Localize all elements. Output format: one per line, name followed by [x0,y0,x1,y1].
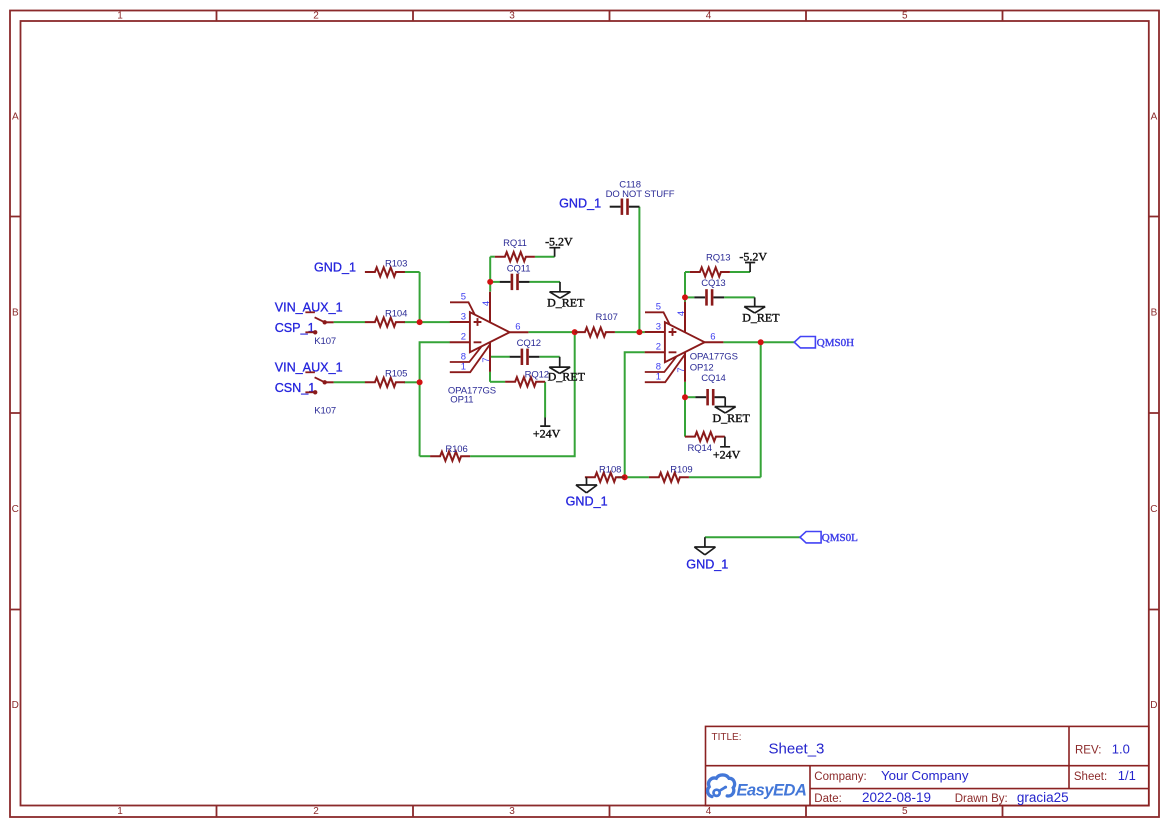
op-amp OP12 OPA177GS [645,301,738,382]
wire CQ13 left [685,296,694,298]
resistor RQ14 [685,432,725,454]
switch K107 lower [305,372,336,416]
wire RQ12 right down to +24V [544,382,546,418]
svg-text:R109: R109 [670,464,692,475]
svg-text:D_RET: D_RET [713,411,751,425]
wire R109 to feedback vertical [689,476,761,478]
svg-text:5: 5 [902,806,908,817]
frame column ticks top [217,11,1003,22]
svg-text:4: 4 [706,10,712,21]
svg-text:A: A [12,112,19,123]
junction OP12 pin7 CQ14 [682,394,688,400]
svg-text:QMS0H: QMS0H [817,337,854,349]
wire R107 to OP12 pin3 [615,331,645,333]
svg-text:RQ12: RQ12 [525,369,549,380]
junction R105 vertical [417,379,423,385]
svg-text:GND_1: GND_1 [559,196,601,210]
wire R106 right to feedback vertical [470,332,575,456]
svg-text:R107: R107 [595,312,617,323]
wire QMS0L to GND [705,536,800,538]
svg-text:+24V: +24V [713,447,741,461]
ground GND_1 at R108 [566,477,608,508]
svg-text:C: C [12,504,19,515]
svg-text:B: B [1151,308,1158,319]
power +24V at RQ12 [533,418,561,441]
svg-text:RQ13: RQ13 [706,253,730,264]
net port QMS0L [800,532,858,544]
svg-text:DO NOT STUFF: DO NOT STUFF [606,189,675,200]
power +24V at RQ14 [713,437,741,462]
svg-text:A: A [1151,112,1158,123]
ruler column labels bottom [117,806,908,817]
svg-text:Drawn By:: Drawn By: [955,793,1008,805]
wire output feedback vertical [760,342,762,477]
ground D_RET at CQ13 [742,297,780,324]
svg-text:Date:: Date: [814,793,842,805]
svg-text:3: 3 [509,10,515,21]
ground GND_1 at QMS0L [686,537,728,571]
svg-text:gracia25: gracia25 [1017,790,1069,805]
wire OP12 pin6 to QMS0H [723,341,794,343]
wire C118 vertical down [638,207,640,332]
wire K107a arm to R104 [334,321,365,323]
svg-text:CQ12: CQ12 [517,338,541,349]
svg-text:1: 1 [117,10,123,21]
ruler row labels left [12,112,19,712]
title block outline [706,726,1149,805]
svg-text:CQ14: CQ14 [701,373,725,384]
wire RQ14 left stub [684,436,686,438]
svg-text:R104: R104 [385,308,407,319]
svg-text:D_RET: D_RET [742,311,780,325]
capacitor C118 [606,179,675,215]
capacitor CQ13 [694,278,725,306]
svg-text:Company:: Company: [814,771,866,783]
wire OP12 pin7 lower [684,382,686,437]
capacitor CQ14 [695,373,725,405]
power -5.2V at RQ13 [739,249,767,272]
capacitor CQ11 [500,263,531,290]
svg-text:D_RET: D_RET [548,370,586,384]
svg-text:K107: K107 [314,405,336,416]
svg-text:GND_1: GND_1 [686,557,728,571]
svg-text:OPA177GS: OPA177GS [690,352,738,363]
resistor RQ11 [495,238,535,261]
wire R105 to vertical [404,381,420,383]
svg-text:REV:: REV: [1075,744,1101,756]
wire OP11 pin4 to RQ11 CQ11 [489,257,491,292]
junction OP11 pin4 CQ11 [487,279,493,285]
wire K107b arm to R105 [334,381,365,383]
wire R108 to junction [618,476,625,478]
svg-text:GND_1: GND_1 [314,261,356,275]
svg-text:Sheet_3: Sheet_3 [769,741,825,758]
svg-text:EasyEDA: EasyEDA [737,781,807,799]
capacitor CQ12 [510,338,541,365]
svg-text:2: 2 [313,10,319,21]
svg-text:1: 1 [117,806,123,817]
resistor R108 [585,464,625,482]
junction R104 vertical [417,319,423,325]
resistor R106 [430,444,470,461]
svg-text:CQ11: CQ11 [507,263,531,274]
wire R104 to OP11 pin 3 [404,321,450,323]
wire CQ13 right to D_RET [724,296,755,298]
svg-text:3: 3 [509,806,515,817]
junction C118 column [636,329,642,335]
resistor R109 [649,464,693,482]
wire OP11 pin7 lower [489,372,491,382]
junction R107 feedback [572,329,578,335]
resistor R103 [365,258,407,276]
svg-text:R108: R108 [599,464,621,475]
svg-text:K107: K107 [314,336,336,347]
svg-text:2: 2 [313,806,319,817]
junction output feedback [758,339,764,345]
svg-text:+24V: +24V [533,426,561,440]
svg-text:5: 5 [902,10,908,21]
wire OP12 pin2 feedback vertical [625,352,645,477]
svg-text:D: D [1150,700,1157,711]
ground D_RET at CQ12 [548,357,586,384]
net port QMS0H [794,337,854,349]
op-amp OP11 OPA177GS [448,291,528,405]
ground D_RET at CQ14 [713,397,751,425]
svg-text:2022-08-19: 2022-08-19 [862,790,931,805]
resistor RQ12 [505,369,549,386]
power -5.2V at RQ11 [545,234,573,256]
wire RQ13 right to -5.2V [730,271,750,273]
svg-text:OP12: OP12 [690,362,714,373]
switch K107 upper [305,312,336,347]
svg-text:B: B [12,308,19,319]
frame row ticks left [10,217,21,610]
svg-text:OP11: OP11 [450,394,473,405]
svg-text:R105: R105 [385,368,407,379]
EasyEDA logo [708,775,735,797]
frame column ticks bottom [217,806,1003,818]
wire RQ13 left stub [685,271,690,273]
svg-text:CQ13: CQ13 [701,278,725,289]
wire RQ12 left [490,381,505,383]
wire OP12 pin4 to RQ13 CQ13 [684,272,686,302]
resistor RQ13 [690,253,731,277]
svg-text:1/1: 1/1 [1118,768,1136,783]
svg-text:Your Company: Your Company [881,768,969,783]
ground D_RET at CQ11 [547,282,585,310]
wire CQ11 right to D_RET [530,281,560,283]
resistor R107 [575,312,618,337]
svg-text:4: 4 [706,806,712,817]
svg-text:-5.2V: -5.2V [739,249,767,263]
wire CQ12 right to D_RET [540,356,560,358]
svg-text:RQ11: RQ11 [503,238,527,249]
frame row ticks right [1149,217,1159,610]
resistor R104 [365,308,407,326]
svg-text:-5.2V: -5.2V [545,234,573,248]
junction OP12 pin4 CQ13 [682,294,688,300]
wire RQ11 left stub [490,256,495,258]
wire CQ12 left [490,356,510,358]
wire CQ14 left [685,396,695,398]
svg-text:RQ14: RQ14 [687,443,711,454]
wire CQ11 left [490,281,500,283]
resistor R105 [365,368,407,387]
svg-text:TITLE:: TITLE: [712,732,742,743]
svg-text:QMS0L: QMS0L [822,532,858,544]
svg-text:D_RET: D_RET [547,296,585,310]
wire R103 to vertical [404,271,420,273]
ruler row labels right [1150,112,1157,712]
svg-text:R106: R106 [445,444,467,455]
svg-text:Sheet:: Sheet: [1074,771,1107,783]
svg-text:C: C [1150,504,1157,515]
wire RQ11 right to -5.2V [535,256,555,258]
wire R106 left [420,455,431,457]
junction R108 R109 [622,474,628,480]
svg-text:R103: R103 [385,258,407,269]
svg-text:1.0: 1.0 [1112,741,1130,756]
svg-text:D: D [12,700,19,711]
wire vertical pin2 column [420,342,450,456]
wire OP11 pin6 to R107 [528,331,575,333]
wire junction to R109 [625,476,649,478]
wire vertical R103 down to R104 row [419,272,421,322]
ruler column labels top [117,10,908,21]
svg-text:GND_1: GND_1 [566,495,608,509]
